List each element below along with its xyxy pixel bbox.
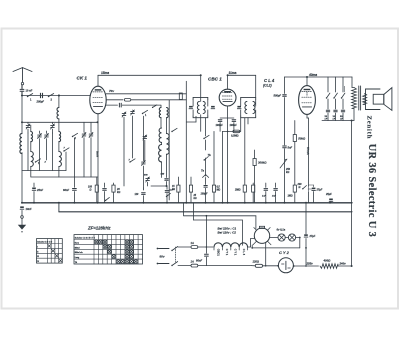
svg-text:Bei 110v : C2: Bei 110v : C2 xyxy=(218,231,237,235)
coil L2b xyxy=(31,142,34,177)
svg-text:C L 4: C L 4 xyxy=(242,249,246,256)
svg-text:kΩ: kΩ xyxy=(194,198,197,200)
switch contact w1 xyxy=(35,159,41,165)
heater chain choke xyxy=(214,243,248,250)
capacitor padder 1nF xyxy=(165,186,169,203)
svg-text:MΩ: MΩ xyxy=(217,190,221,192)
output transformer core xyxy=(358,86,360,110)
svg-text:80v: 80v xyxy=(160,255,165,259)
svg-text:25: 25 xyxy=(193,195,197,197)
wire lamp loop xyxy=(296,237,300,239)
capacitor 27uF a xyxy=(308,185,323,203)
table band switch large xyxy=(74,235,143,264)
wire main ground bus xyxy=(22,202,352,204)
svg-text:ZF=128kHz: ZF=128kHz xyxy=(87,226,111,231)
wire 15ma line xyxy=(98,74,201,76)
wire bus riser 2 xyxy=(193,203,195,220)
variable capacitor osc tune xyxy=(131,110,135,115)
fuse 1A bottom xyxy=(191,260,252,267)
svg-text:Schalter A B C D: Schalter A B C D xyxy=(37,241,53,244)
coil antenna long xyxy=(20,134,22,203)
svg-text:C Y 1: C Y 1 xyxy=(225,249,229,256)
switch contact above bus a xyxy=(105,197,110,201)
svg-text:8mA: 8mA xyxy=(96,151,100,157)
resistor 300kOhm xyxy=(253,150,267,203)
wire 11ma line xyxy=(228,74,256,76)
trimmer padder 900 xyxy=(144,175,150,183)
svg-text:1: 1 xyxy=(145,114,147,117)
switch contact w3 xyxy=(63,148,69,152)
svg-text:11ma: 11ma xyxy=(229,71,237,75)
svg-text:2: 2 xyxy=(51,97,53,101)
capacitor 100pF b xyxy=(230,120,238,127)
wire output vert xyxy=(351,121,353,267)
wire bus riser 1 xyxy=(183,203,185,216)
wire trimmer risers left xyxy=(27,122,29,124)
wire to speaker line xyxy=(338,265,352,267)
svg-text:50kΩ: 50kΩ xyxy=(298,137,306,141)
switch contact sb xyxy=(333,77,337,99)
coil osc tank b xyxy=(167,134,170,178)
svg-text:27μF: 27μF xyxy=(316,189,323,192)
tube CL4 xyxy=(299,86,316,115)
svg-text:7: 7 xyxy=(129,160,131,162)
switch contact sa xyxy=(326,77,330,99)
svg-text:TA: TA xyxy=(75,261,78,264)
svg-text:0,5MΩ: 0,5MΩ xyxy=(231,134,239,137)
wire switch drops xyxy=(65,152,67,171)
antenna xyxy=(13,68,32,85)
svg-text:Mittel: Mittel xyxy=(75,246,80,249)
wire mains top xyxy=(178,246,191,248)
variable capacitor C-tune2 xyxy=(45,133,49,138)
capacitor 10nF antenna xyxy=(20,85,33,96)
svg-text:2: 2 xyxy=(44,162,47,164)
svg-text:60nF: 60nF xyxy=(63,188,69,192)
tube CBC1 xyxy=(219,89,236,106)
wire trimmer risers right xyxy=(83,122,85,132)
coil L3a xyxy=(59,132,61,142)
svg-text:1: 1 xyxy=(30,97,32,101)
wire pickup xyxy=(205,140,207,150)
svg-text:1MΩ: 1MΩ xyxy=(288,196,293,198)
svg-text:7: 7 xyxy=(64,148,66,150)
wire CK1 grid row xyxy=(106,104,117,106)
wire CK1 anode to 15ma xyxy=(97,75,99,86)
capacitor 5nF xyxy=(283,146,293,150)
node osc tap xyxy=(58,95,60,97)
resistor 400Ohm xyxy=(320,258,338,268)
capacitor 25uF xyxy=(325,193,333,203)
switch contact 2 xyxy=(48,94,54,102)
wire to RF coil xyxy=(58,96,60,108)
svg-text:15ma: 15ma xyxy=(101,71,109,75)
svg-text:1nF: 1nF xyxy=(262,196,267,198)
svg-text:1A: 1A xyxy=(191,260,194,264)
svg-text:kΩ: kΩ xyxy=(286,171,289,174)
wire CK1 cathode down xyxy=(97,114,99,203)
svg-text:120: 120 xyxy=(135,194,140,196)
IF transformer 2 primary xyxy=(241,100,247,117)
switch contact above bus b xyxy=(166,193,171,197)
resistor 15kOhm xyxy=(172,177,180,203)
capacitor IF1 primary xyxy=(189,106,193,109)
coil osc tank a xyxy=(159,128,161,142)
svg-text:1nF: 1nF xyxy=(170,190,175,192)
capacitor IF1 secondary xyxy=(211,106,215,109)
resistor 25kOhm xyxy=(189,177,196,203)
node dots bus xyxy=(21,202,23,204)
svg-text:Kurz: Kurz xyxy=(75,242,79,244)
resistor 2MOhm xyxy=(234,118,246,203)
coil osc secondary xyxy=(167,107,169,133)
resistor det load xyxy=(252,183,255,203)
capacitor tone b xyxy=(333,99,338,121)
resistor 0,5MOhm b xyxy=(212,131,220,202)
IF transformer 1 secondary xyxy=(203,100,208,117)
resistor 1MOhm xyxy=(288,185,297,203)
wire tone common xyxy=(322,120,354,122)
resistor IF1 damp xyxy=(179,93,182,100)
svg-text:5nF: 5nF xyxy=(288,146,293,150)
wire left block bottom xyxy=(22,170,66,172)
wire 70v line xyxy=(106,93,186,95)
wire ballast drop xyxy=(255,216,257,229)
svg-text:15: 15 xyxy=(172,186,175,188)
wire choke to ballast xyxy=(248,246,251,248)
wire CBC1 anode xyxy=(227,75,229,89)
pilot lamp 1 xyxy=(278,234,285,241)
capacitor 4nF det xyxy=(271,183,277,203)
trimmer osc3 xyxy=(122,112,126,117)
trimmer T4 xyxy=(89,132,93,137)
table wave switch small xyxy=(37,239,63,264)
pilot lamp 2 xyxy=(285,234,295,241)
capacitor 25nF xyxy=(32,183,43,203)
svg-text:0,5: 0,5 xyxy=(217,187,221,189)
wire choke drop xyxy=(241,220,243,245)
svg-text:Mittel ob.: Mittel ob. xyxy=(75,251,84,254)
contact mid xyxy=(153,105,157,108)
wire CL4 cathode xyxy=(306,115,308,119)
svg-text:10 nF: 10 nF xyxy=(26,89,33,93)
coil L3b xyxy=(59,142,62,177)
trimmer osc 2 xyxy=(142,160,146,165)
svg-text:CBC1: CBC1 xyxy=(217,249,221,257)
svg-text:C L 4: C L 4 xyxy=(264,78,275,83)
wire IF1 link xyxy=(185,81,187,203)
wire L1 down xyxy=(58,119,60,132)
IF transformer 1 primary xyxy=(193,100,199,117)
switch contact grid xyxy=(142,110,148,117)
capacitor 100pF a xyxy=(216,120,224,127)
capacitor 27uF b xyxy=(304,234,316,267)
wire AVC row xyxy=(22,121,98,123)
svg-text:300kΩ: 300kΩ xyxy=(258,161,267,165)
svg-text:100pF: 100pF xyxy=(230,124,238,127)
wire 40ma line xyxy=(285,76,353,78)
svg-text:120Ω: 120Ω xyxy=(253,259,259,263)
svg-text:CK 1: CK 1 xyxy=(77,76,88,81)
trimmer T3 xyxy=(82,132,86,137)
svg-text:C Y 1: C Y 1 xyxy=(234,249,238,256)
switch contact sc xyxy=(341,77,345,99)
switch contact w2 xyxy=(72,133,78,140)
capacitor osc pad xyxy=(165,179,168,186)
wire IF2 bottom out xyxy=(247,118,249,124)
trimmer osc 1 xyxy=(143,135,147,140)
wire osc col down xyxy=(132,116,134,158)
resistor 120Ohm xyxy=(252,259,279,267)
wire band switch row xyxy=(22,95,91,97)
ballast tube xyxy=(253,226,271,244)
svg-text:4nF: 4nF xyxy=(271,195,277,198)
capacitor 50nF grid xyxy=(274,93,287,97)
fuse 1A top xyxy=(191,241,214,248)
contact arrow Ta xyxy=(201,157,208,173)
svg-text:100pF: 100pF xyxy=(201,193,208,196)
variable capacitor C-tune1 xyxy=(38,133,42,138)
svg-text:70v: 70v xyxy=(109,89,114,93)
wire CBC1 down xyxy=(227,106,229,118)
svg-text:100pF: 100pF xyxy=(216,124,224,127)
wire rectifier output xyxy=(294,265,319,267)
svg-text:400Ω: 400Ω xyxy=(323,258,332,262)
capacitor 120nF xyxy=(135,187,146,202)
svg-text:10nF: 10nF xyxy=(26,207,32,211)
wire tune risers xyxy=(39,131,41,133)
svg-text:900: 900 xyxy=(144,175,148,177)
IF transformer 2 frame xyxy=(241,97,256,117)
capacitor 100pF pickup xyxy=(201,186,208,203)
svg-text:80nF: 80nF xyxy=(196,259,202,263)
pickup terminal xyxy=(203,175,209,185)
ground xyxy=(18,210,26,232)
svg-text:Ω: Ω xyxy=(298,186,301,189)
switch contact osc2 xyxy=(171,128,177,132)
wire ballast down xyxy=(265,243,267,266)
wire mains riser xyxy=(205,216,207,247)
capacitor tone c xyxy=(340,99,345,121)
svg-text:Ω: Ω xyxy=(89,188,92,191)
wire IF1 sec down xyxy=(195,116,197,122)
wire osc mid xyxy=(160,118,162,128)
svg-text:920: 920 xyxy=(161,174,165,176)
resistor 100Ohm xyxy=(88,177,98,203)
trimmer T1 xyxy=(26,124,30,129)
trimmer T2 xyxy=(51,124,55,129)
wire osc risers xyxy=(123,117,125,186)
capacitor 5nF b xyxy=(103,183,107,203)
capacitor 1nF det xyxy=(262,183,268,203)
svg-text:500pF: 500pF xyxy=(274,93,282,97)
mains switch xyxy=(171,247,177,267)
field coil 200Ohm xyxy=(297,183,309,203)
speaker xyxy=(365,88,392,111)
IF transformer 2 secondary xyxy=(253,100,256,117)
wire ballast to lamps xyxy=(270,237,278,239)
capacitor 10nF chassis xyxy=(20,206,32,211)
mains plug xyxy=(157,248,169,265)
svg-text:200pF: 200pF xyxy=(36,100,45,104)
svg-text:40ma: 40ma xyxy=(308,73,317,77)
output transformer primary xyxy=(352,77,357,121)
tube CK1 xyxy=(90,86,106,114)
svg-text:UR 36 Selectric U 3: UR 36 Selectric U 3 xyxy=(366,144,377,237)
IF transformer 1 frame xyxy=(193,97,208,117)
svg-text:6v 0,1a: 6v 0,1a xyxy=(277,228,286,232)
switch contact 1 xyxy=(27,94,33,102)
tube CY2 rectifier xyxy=(278,258,293,273)
svg-text:25μF: 25μF xyxy=(325,193,332,196)
svg-text:kΩ: kΩ xyxy=(117,191,120,194)
output transformer secondary xyxy=(363,94,367,105)
svg-text:255v: 255v xyxy=(306,261,314,265)
wire grid net xyxy=(284,98,286,146)
wire heater bus 1 xyxy=(184,215,256,217)
resistor 50kOhm xyxy=(293,121,306,186)
wire IF1 bottom out xyxy=(200,118,202,132)
wire det down xyxy=(223,130,233,132)
capacitor 200pF xyxy=(36,93,45,103)
svg-text:240v: 240v xyxy=(339,261,347,265)
wire diode row xyxy=(220,117,234,119)
switch contact osc xyxy=(129,159,135,163)
potentiometer 250kOhm xyxy=(280,149,291,203)
wire B+ bus xyxy=(59,211,352,213)
capacitor 80nF xyxy=(196,247,208,266)
svg-text:Ta: Ta xyxy=(201,169,204,173)
coil osc tank c xyxy=(159,142,162,177)
svg-text:C Y 2: C Y 2 xyxy=(279,250,290,255)
resistor screen pill xyxy=(124,99,186,102)
wire osc top xyxy=(160,105,162,107)
wire CK1 screen row xyxy=(106,99,123,101)
svg-text:Schalter 1 2 3 4 5 6 7 8: Schalter 1 2 3 4 5 6 7 8 xyxy=(75,237,95,240)
coil L2a xyxy=(31,125,33,142)
dashed link tone switch xyxy=(344,87,346,93)
capacitor 60nF xyxy=(63,177,76,203)
wire field riser xyxy=(305,203,307,234)
coil L1 input xyxy=(57,108,59,119)
capacitor tone a xyxy=(325,99,330,121)
wire osc right rail xyxy=(168,100,170,200)
wire heater bus 2 xyxy=(194,219,243,221)
capacitor osc coupling xyxy=(119,103,160,107)
svg-text:25nF: 25nF xyxy=(36,188,43,192)
coil osc primary xyxy=(159,107,161,117)
svg-text:2MΩ: 2MΩ xyxy=(234,188,240,191)
resistor 20kOhm xyxy=(112,183,120,203)
svg-text:CBC 1: CBC 1 xyxy=(208,77,222,82)
node dots power xyxy=(206,215,208,217)
wire mains bottom xyxy=(178,265,191,267)
capacitor IF2 primary xyxy=(237,106,241,109)
svg-text:1A: 1A xyxy=(191,241,194,245)
resistor 0,5MOhm pill xyxy=(231,130,240,137)
svg-text:27μF: 27μF xyxy=(309,235,316,238)
wire antenna down xyxy=(21,96,23,134)
svg-text:Zenith: Zenith xyxy=(366,116,373,140)
switch contact Tb xyxy=(203,135,211,157)
svg-text:57mA: 57mA xyxy=(306,147,310,155)
svg-text:(CL2): (CL2) xyxy=(263,84,273,88)
